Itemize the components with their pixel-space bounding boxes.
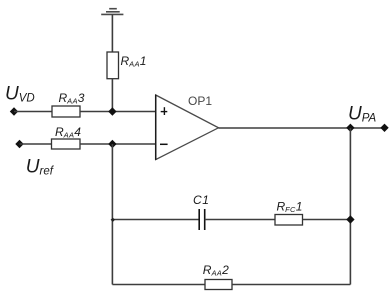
svg-text:Uref: Uref bbox=[26, 156, 55, 177]
wire RFC1 to right vertical bbox=[303, 219, 351, 221]
wire RAA1 to node plus bbox=[111, 79, 113, 112]
opamp plus pin bbox=[161, 107, 168, 115]
resistor RAA1 bbox=[107, 52, 119, 79]
node feedback junction bbox=[346, 215, 354, 223]
svg-text:OP1: OP1 bbox=[188, 94, 212, 108]
terminal UPA bbox=[380, 124, 388, 132]
node small junction left feedback bbox=[111, 218, 115, 222]
svg-text:UVD: UVD bbox=[5, 84, 35, 105]
svg-text:UPA: UPA bbox=[348, 103, 377, 124]
op-amp left edge bbox=[155, 95, 157, 160]
wire Uref to RAA4 bbox=[20, 143, 52, 145]
ground bbox=[101, 9, 123, 15]
wire RAA3 to opamp plus input bbox=[80, 111, 156, 113]
svg-text:RAA4: RAA4 bbox=[55, 125, 81, 140]
wire UVD to RAA3 bbox=[14, 111, 52, 113]
wire ground to RAA1 bbox=[111, 14, 113, 52]
svg-text:RAA1: RAA1 bbox=[121, 54, 147, 69]
terminal UVD bbox=[10, 107, 18, 115]
wire middle feedback left bbox=[112, 219, 199, 221]
terminal Uref bbox=[15, 140, 23, 148]
svg-text:RFC1: RFC1 bbox=[277, 199, 303, 214]
resistor RAA2 bbox=[205, 280, 232, 290]
wire left vertical feedback bbox=[111, 144, 113, 285]
svg-text:RAA3: RAA3 bbox=[59, 91, 85, 106]
wire bottom feedback left bbox=[112, 284, 205, 286]
capacitor C1 bbox=[199, 209, 205, 230]
svg-text:C1: C1 bbox=[193, 193, 210, 207]
node plus junction bbox=[108, 107, 116, 115]
svg-text:RAA2: RAA2 bbox=[203, 263, 229, 278]
op-amp OP1 bbox=[156, 95, 219, 160]
wire RAA2 to right vertical bbox=[232, 284, 350, 286]
wire RAA4 to opamp minus input bbox=[80, 143, 156, 145]
opamp minus pin bbox=[160, 143, 168, 145]
node minus junction bbox=[108, 140, 116, 148]
wire opamp output to UPA bbox=[219, 127, 385, 129]
resistor RAA4 bbox=[52, 139, 81, 149]
resistor RFC1 bbox=[275, 215, 303, 226]
wire right vertical feedback bbox=[349, 128, 351, 285]
node output junction bbox=[346, 124, 354, 132]
resistor RAA3 bbox=[52, 106, 80, 117]
wire C1 to RFC1 bbox=[205, 219, 275, 221]
